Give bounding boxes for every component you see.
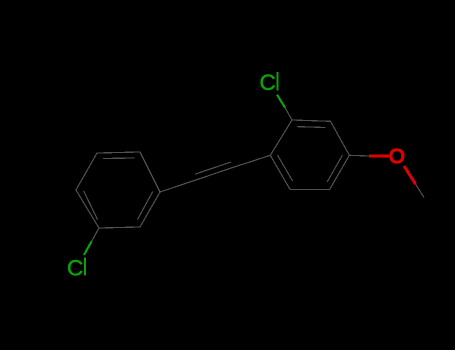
bond ring2 to Cl (green half) (277, 95, 285, 108)
chain double bond C1=C2 inner line (195, 162, 231, 174)
ring 1 inner aromatic lines (84, 158, 153, 220)
bond O to methyl (gray half) (416, 184, 425, 198)
svg-text:O: O (389, 145, 405, 168)
bond ring2 to O (gray half) (349, 154, 369, 157)
svg-text:C: C (67, 255, 83, 280)
chain bond ring1-C1 (vinyl bridge, colinear) (160, 180, 197, 192)
svg-text:C: C (260, 70, 276, 95)
ring 2 inner aromatic lines (278, 127, 343, 182)
bond O to methyl (red half) (404, 166, 416, 184)
chain double bond C1=C2 outer line (197, 167, 233, 179)
bond ring2 to O (red half) (369, 155, 389, 158)
bond ring1 to Cl (green half) (84, 242, 92, 256)
benzene ring 2 (right, 2-chloro-4-methoxyphenyl) (270, 120, 349, 190)
benzene ring 1 (left, 3-chlorophenyl) (76, 152, 160, 228)
bond ring2 to Cl (gray half) (285, 108, 292, 121)
chain bond C2-ring2 (colinear) (233, 155, 270, 167)
bond ring1 to Cl (gray half) (92, 228, 100, 242)
